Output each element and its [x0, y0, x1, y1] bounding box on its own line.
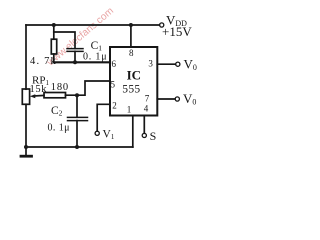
- svg-text:IC: IC: [127, 68, 141, 83]
- node ground/left: [24, 145, 28, 149]
- wire pin6 (threshold): [54, 61, 110, 63]
- svg-text:180: 180: [51, 82, 69, 93]
- terminal VDD circle: [160, 23, 164, 27]
- node ground/C2: [75, 145, 79, 149]
- svg-text:V0: V0: [184, 56, 197, 72]
- wire VDD top rail: [26, 24, 159, 26]
- svg-text:+15V: +15V: [162, 24, 192, 39]
- svg-text:4. 7k: 4. 7k: [30, 56, 57, 67]
- node C1/pin6 wire: [73, 60, 77, 64]
- junction dots: [24, 23, 133, 149]
- capacitor C2: [76, 95, 78, 117]
- wire pin2 to V1 terminal: [97, 104, 110, 131]
- watermark www.elecfans.com: [45, 6, 116, 69]
- resistor 180: [44, 93, 66, 98]
- wire ground rail: [26, 146, 133, 148]
- node rail/pin8: [129, 23, 133, 27]
- svg-text:5: 5: [111, 79, 116, 89]
- svg-text:0. 1μ: 0. 1μ: [48, 122, 70, 133]
- wire 180 to pin5: [66, 81, 111, 95]
- svg-text:3: 3: [148, 59, 153, 69]
- wire left vertical (VDD rail to ground): [25, 25, 27, 89]
- wire pin4 to S terminal: [143, 116, 145, 134]
- node C2/pin5 wire: [75, 93, 79, 97]
- svg-text:8: 8: [129, 48, 134, 58]
- svg-text:15k: 15k: [30, 84, 48, 95]
- svg-text:0. 1μ: 0. 1μ: [83, 51, 107, 62]
- terminal Vo pin3 circle: [176, 62, 180, 66]
- potentiometer RP1: [22, 89, 29, 104]
- wire pin7 output: [157, 98, 175, 100]
- svg-text:1: 1: [127, 105, 132, 115]
- wire pin1 to ground: [132, 116, 134, 148]
- svg-text:7: 7: [145, 94, 150, 104]
- svg-text:C2: C2: [51, 105, 63, 117]
- terminal V1 circle: [95, 131, 99, 135]
- svg-text:V0: V0: [183, 91, 196, 107]
- svg-text:S: S: [150, 129, 157, 143]
- terminal S circle: [142, 133, 146, 137]
- svg-text:4: 4: [144, 104, 149, 114]
- svg-text:555: 555: [122, 83, 140, 95]
- svg-text:6: 6: [112, 59, 117, 69]
- wire C1 branch: [54, 32, 75, 48]
- terminal Vo pin7 circle: [175, 97, 179, 101]
- op IC 555 box: [110, 47, 157, 116]
- wire pin8 to VDD rail: [130, 25, 132, 47]
- svg-text:V1: V1: [103, 129, 115, 142]
- svg-text:2: 2: [112, 101, 117, 111]
- ground symbol: [25, 147, 27, 155]
- capacitor C1: [67, 48, 83, 50]
- resistor R 4.7k: [53, 25, 55, 39]
- node rail/R tap: [52, 23, 56, 27]
- wire pin3 output: [157, 63, 175, 65]
